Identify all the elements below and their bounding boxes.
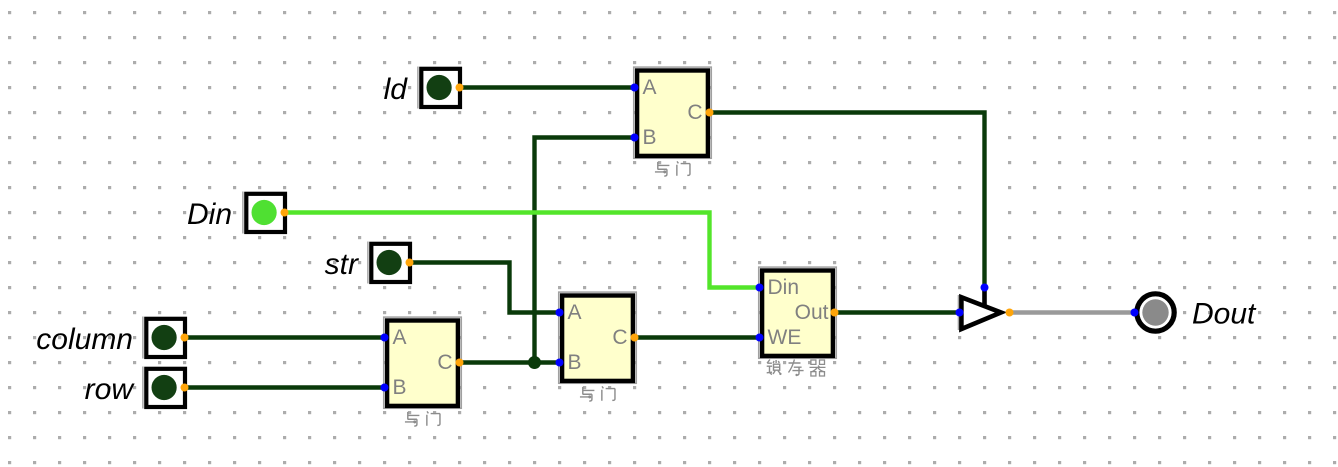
svg-text:WE: WE (768, 326, 802, 349)
wire row -> AND2.B (185, 385, 385, 389)
tri-state buffer (triangle) (958, 295, 959, 330)
svg-text:A: A (568, 301, 582, 324)
output node AND2.C (456, 359, 464, 367)
input pin ld (417, 67, 418, 109)
output node latch.Out (831, 309, 839, 317)
wire ld -> AND1.A (460, 85, 635, 89)
svg-text:A: A (643, 76, 657, 99)
wire AND3.C -> latch.WE (635, 335, 760, 339)
wire junction -> AND1.B (535, 138, 635, 363)
svg-text:Dout: Dout (1192, 297, 1257, 330)
AND gate AND3 (yellow box) (559, 292, 637, 383)
input pin str (367, 242, 368, 284)
svg-text:C: C (687, 101, 702, 124)
svg-text:C: C (437, 351, 452, 374)
svg-text:B: B (393, 376, 407, 399)
input node latch.WE (756, 334, 764, 342)
svg-text:B: B (568, 351, 582, 374)
wire str -> AND3.A (410, 263, 560, 313)
input node AND1.B (631, 134, 639, 142)
wire buffer out -> Dout (floating) (1010, 310, 1135, 314)
svg-text:str: str (325, 248, 359, 281)
input node AND2.B (381, 384, 389, 392)
AND1 label 与门 (655, 162, 669, 176)
output node column out (181, 334, 189, 342)
wire latch.Out -> buffer in (835, 310, 960, 314)
svg-text:Din: Din (187, 198, 232, 231)
input node Dout in (1131, 309, 1139, 317)
input pin Din (242, 192, 243, 234)
svg-text:Out: Out (795, 301, 829, 324)
input node buffer EN (981, 284, 989, 292)
AND3 label 与门 (580, 387, 594, 401)
AND2 label 与门 (405, 412, 419, 426)
latch U4 (yellow box) (759, 267, 837, 358)
output pin Dout (1137, 294, 1174, 331)
output node str out (406, 259, 414, 267)
input node latch.Din (756, 284, 764, 292)
input node AND3.B (556, 359, 564, 367)
latch label 锁存器 (767, 360, 782, 376)
AND gate AND2 (yellow box) (384, 317, 462, 408)
svg-text:A: A (393, 326, 407, 349)
input node AND2.A (381, 334, 389, 342)
wire AND1.C -> tri-state EN (710, 113, 985, 288)
wire AND2.C -> AND3.B (460, 360, 560, 364)
output node ld out (456, 84, 464, 92)
wire Din -> latch.Din (logic 1) (285, 213, 760, 288)
output node AND3.C (631, 334, 639, 342)
input node buffer in (956, 309, 964, 317)
svg-text:Din: Din (768, 276, 800, 299)
input pin column (142, 317, 143, 359)
svg-text:row: row (85, 373, 136, 406)
output node buffer out (1006, 309, 1014, 317)
input pin row (142, 367, 143, 409)
svg-text:B: B (643, 126, 657, 149)
svg-text:ld: ld (384, 73, 409, 106)
output node Din out (281, 209, 289, 217)
svg-text:column: column (36, 323, 133, 356)
output node row out (181, 384, 189, 392)
output node AND1.C (706, 109, 714, 117)
wire junction node (528, 356, 541, 369)
input node AND1.A (631, 84, 639, 92)
svg-text:C: C (612, 326, 627, 349)
AND gate AND1 (yellow box) (634, 67, 712, 158)
wire column -> AND2.A (185, 335, 385, 339)
input node AND3.A (556, 309, 564, 317)
